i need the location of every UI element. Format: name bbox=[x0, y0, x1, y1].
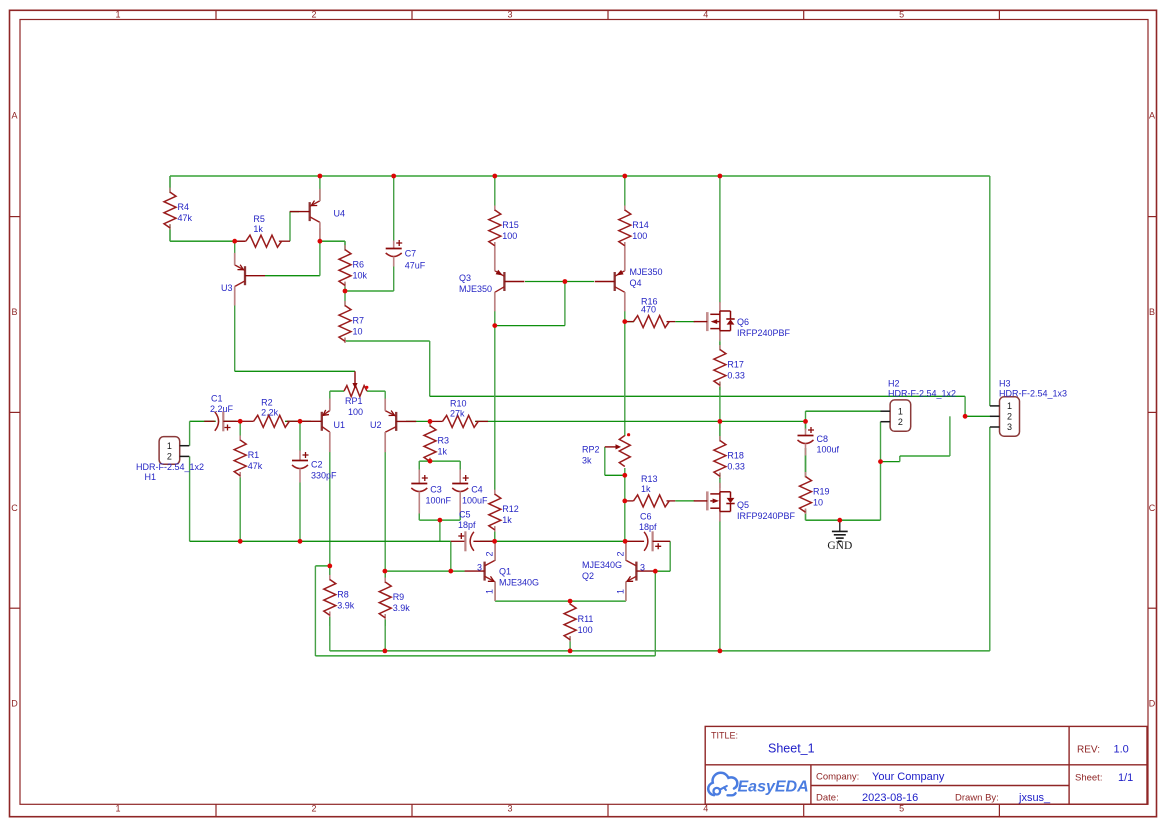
svg-text:Sheet_1: Sheet_1 bbox=[768, 742, 815, 756]
svg-text:R2: R2 bbox=[261, 397, 273, 407]
svg-text:2: 2 bbox=[485, 551, 495, 556]
svg-text:Date:: Date: bbox=[816, 793, 839, 804]
svg-text:C3: C3 bbox=[430, 485, 442, 495]
junction node U4-collector/R6/U3-base bbox=[318, 239, 323, 244]
wire Q5 drain down bbox=[719, 521, 721, 651]
wire R4 bottom to node A bbox=[170, 240, 235, 242]
svg-text:1: 1 bbox=[616, 589, 626, 594]
svg-text:GND: GND bbox=[827, 540, 852, 552]
wire R11 branch bbox=[569, 601, 571, 651]
wire output row R10 to C8 bbox=[475, 420, 806, 422]
wire R3 branch bbox=[429, 421, 431, 461]
svg-text:R4: R4 bbox=[178, 202, 190, 212]
wire U4 collector down to U3 base bbox=[319, 241, 321, 276]
svg-text:C5: C5 bbox=[459, 510, 471, 520]
svg-text:1: 1 bbox=[115, 10, 120, 20]
svg-text:5: 5 bbox=[899, 10, 904, 20]
wire feedback long horizontal bbox=[430, 395, 965, 397]
wire R4 branch bbox=[169, 176, 171, 241]
wire U3 collector down bbox=[234, 287, 236, 372]
resistor R7 bbox=[338, 291, 365, 343]
transistor U3 bbox=[235, 253, 265, 306]
svg-text:R13: R13 bbox=[641, 474, 658, 484]
junction node Q2-base/C6 bbox=[653, 569, 658, 574]
wire bus to Q1 base line bbox=[450, 541, 452, 571]
EasyEDA logo bbox=[708, 773, 808, 796]
svg-text:C2: C2 bbox=[311, 460, 323, 470]
wire Q1 base row bbox=[385, 570, 465, 572]
wire Q1 emitter row bbox=[495, 600, 570, 602]
svg-text:C1: C1 bbox=[211, 394, 223, 404]
svg-text:MJE350: MJE350 bbox=[630, 267, 663, 277]
svg-text:3: 3 bbox=[1007, 422, 1012, 432]
junction node rail/U4-emitter bbox=[318, 174, 323, 179]
svg-text:2.2k: 2.2k bbox=[261, 407, 279, 417]
wire node A to R5 bbox=[235, 240, 245, 242]
svg-text:10: 10 bbox=[353, 327, 363, 337]
junction node R2/C2/U1-base bbox=[298, 419, 303, 424]
resistor R13 bbox=[625, 474, 675, 507]
svg-text:Q1: Q1 bbox=[499, 567, 511, 577]
wire to Q3 collector bbox=[495, 325, 565, 327]
svg-text:Q5: Q5 bbox=[737, 500, 749, 510]
wire U4 emitter top bbox=[319, 176, 321, 201]
svg-text:1/1: 1/1 bbox=[1118, 772, 1133, 784]
svg-text:HDR-F-2.54_1x2: HDR-F-2.54_1x2 bbox=[136, 462, 204, 472]
svg-text:Q2: Q2 bbox=[582, 571, 594, 581]
resistor R3 bbox=[423, 421, 450, 463]
ground GND symbol bbox=[827, 520, 852, 552]
svg-text:R3: R3 bbox=[438, 436, 450, 446]
svg-text:B: B bbox=[1149, 307, 1155, 317]
junction node R6/R7/C7 bbox=[343, 289, 348, 294]
svg-text:Your Company: Your Company bbox=[872, 771, 945, 783]
wire Q2 emitter down bbox=[625, 582, 627, 601]
svg-text:3: 3 bbox=[507, 803, 512, 813]
svg-text:R14: R14 bbox=[632, 220, 649, 230]
junction node C1/R1/R2 bbox=[238, 419, 243, 424]
wire lower link vertical bbox=[314, 566, 316, 656]
svg-text:100uf: 100uf bbox=[817, 445, 840, 455]
svg-text:C8: C8 bbox=[817, 434, 829, 444]
svg-text:C7: C7 bbox=[405, 249, 417, 259]
wire U2 collector down bbox=[384, 432, 386, 571]
svg-text:Q6: Q6 bbox=[737, 317, 749, 327]
svg-text:47uF: 47uF bbox=[405, 261, 426, 271]
resistor R10 bbox=[430, 398, 488, 427]
svg-text:HDR-F-2.54_1x2: HDR-F-2.54_1x2 bbox=[888, 389, 956, 399]
wire output node to R18 bbox=[719, 421, 721, 441]
wire Q2 emitter row bbox=[570, 600, 626, 602]
wire bus node to Q2 collector node bbox=[495, 540, 625, 542]
svg-text:10: 10 bbox=[813, 498, 823, 508]
svg-text:U1: U1 bbox=[334, 420, 346, 430]
wire C3 C4 top bracket bbox=[419, 460, 460, 462]
wire RP1 left bbox=[330, 390, 344, 392]
svg-text:27k: 27k bbox=[450, 408, 465, 418]
svg-text:B: B bbox=[11, 307, 17, 317]
svg-text:18pf: 18pf bbox=[458, 520, 476, 530]
svg-text:100: 100 bbox=[502, 231, 517, 241]
resistor R17 bbox=[712, 342, 745, 390]
wire R19 bottom to ground row bbox=[805, 510, 807, 520]
junction node H2-pin2/return bbox=[878, 459, 883, 464]
wire bus C5 to node bbox=[480, 540, 495, 542]
svg-text:4: 4 bbox=[703, 10, 708, 20]
transistor Q1 MJE340G bbox=[465, 543, 496, 601]
svg-text:100nF: 100nF bbox=[426, 496, 452, 506]
wire R6 top lead bbox=[344, 241, 346, 252]
wire U1 collector down bbox=[329, 432, 331, 566]
wire RP1 right bbox=[367, 390, 385, 392]
capacitor C1 bbox=[204, 394, 240, 432]
svg-text:R18: R18 bbox=[727, 451, 744, 461]
svg-text:2023-08-16: 2023-08-16 bbox=[862, 792, 918, 804]
connector H3 HDR-F-2.54_1x3 bbox=[990, 379, 1067, 437]
svg-text:Q4: Q4 bbox=[630, 278, 642, 288]
svg-text:1k: 1k bbox=[502, 515, 512, 525]
svg-text:47k: 47k bbox=[178, 213, 193, 223]
wire C8 R19 branch bbox=[805, 421, 807, 430]
junction node rail/R15 bbox=[492, 174, 497, 179]
resistor R15 bbox=[487, 176, 519, 248]
svg-text:Q3: Q3 bbox=[459, 273, 471, 283]
svg-text:2: 2 bbox=[311, 803, 316, 813]
wire lower link to Q2 base bbox=[654, 571, 656, 656]
junction node Q3/Q4 base bbox=[563, 279, 568, 284]
wire lower link horizontal bbox=[315, 655, 655, 657]
junction node C5/Q1-base bbox=[448, 569, 453, 574]
transistor U4 bbox=[290, 189, 320, 240]
junction node Q5/bottom rail bbox=[718, 649, 723, 654]
wire RP2 wiper loop bbox=[604, 447, 606, 475]
svg-text:1: 1 bbox=[115, 803, 120, 813]
junction node R17/R18/output bbox=[718, 419, 723, 424]
junction node ground bbox=[837, 518, 842, 523]
capacitor C3 bbox=[411, 461, 452, 520]
resistor R5 bbox=[235, 214, 290, 247]
junction node U2-collector/R9/Q1-base bbox=[383, 569, 388, 574]
svg-text:jxsus_: jxsus_ bbox=[1018, 792, 1051, 804]
capacitor C7 bbox=[385, 176, 426, 291]
wire R16 row bbox=[625, 321, 634, 323]
svg-text:1: 1 bbox=[898, 406, 903, 416]
resistor R12 bbox=[487, 480, 519, 541]
wire Q1 collector up bbox=[494, 541, 496, 561]
wire U2 base to R10 node bbox=[406, 420, 430, 422]
wire R17 to output node bbox=[719, 380, 721, 421]
svg-text:RP1: RP1 bbox=[345, 396, 363, 406]
wire U1 collector to lower link bbox=[315, 565, 329, 567]
svg-text:HDR-F-2.54_1x3: HDR-F-2.54_1x3 bbox=[999, 389, 1067, 399]
svg-text:IRFP240PBF: IRFP240PBF bbox=[737, 328, 791, 338]
wire right drop to H3 pin1 bbox=[989, 176, 991, 406]
transistor U1 bbox=[302, 399, 330, 453]
junction node R1/bus bbox=[238, 539, 243, 544]
wire +V top rail bbox=[170, 175, 990, 177]
svg-text:Sheet:: Sheet: bbox=[1075, 773, 1102, 784]
wire Q6 source to R17 bbox=[719, 340, 721, 351]
svg-text:RP2: RP2 bbox=[582, 445, 600, 455]
wire R2 to U1 base bbox=[285, 420, 302, 422]
svg-text:D: D bbox=[11, 699, 18, 709]
svg-text:R11: R11 bbox=[578, 614, 594, 624]
wire U1 emitter drop bbox=[329, 391, 331, 410]
svg-text:U3: U3 bbox=[221, 283, 233, 293]
svg-text:1k: 1k bbox=[253, 224, 263, 234]
wire U3 base link bbox=[265, 275, 320, 277]
junction node U2-base/R10/R3 bbox=[428, 419, 433, 424]
svg-text:0.33: 0.33 bbox=[727, 462, 745, 472]
svg-text:3.9k: 3.9k bbox=[337, 600, 355, 610]
svg-text:1: 1 bbox=[167, 441, 172, 451]
potentiometer RP1 bbox=[344, 371, 368, 417]
junction node rail/Q6 bbox=[718, 174, 723, 179]
wire Q2 collector up bbox=[625, 541, 627, 561]
wire R13 to Q5 gate bbox=[675, 500, 694, 502]
svg-text:2.2uF: 2.2uF bbox=[210, 404, 234, 414]
wire to H3 pin2 bbox=[965, 415, 990, 417]
junction node U1-collector/R8 bbox=[327, 564, 332, 569]
wire Q1 emitter down bbox=[494, 582, 496, 601]
svg-text:IRFP9240PBF: IRFP9240PBF bbox=[737, 511, 796, 521]
resistor R4 bbox=[163, 176, 193, 241]
wire U2 emitter drop bbox=[384, 391, 386, 410]
svg-text:R8: R8 bbox=[337, 589, 349, 599]
svg-text:3: 3 bbox=[640, 563, 645, 573]
title block bbox=[705, 726, 1147, 804]
svg-text:2: 2 bbox=[167, 452, 172, 462]
svg-text:1.0: 1.0 bbox=[1114, 744, 1129, 756]
svg-text:C6: C6 bbox=[640, 512, 652, 522]
svg-text:H3: H3 bbox=[999, 379, 1011, 389]
svg-text:EasyEDA: EasyEDA bbox=[738, 779, 809, 796]
svg-text:R6: R6 bbox=[353, 260, 365, 270]
wire U1 base green bbox=[300, 420, 311, 422]
junction node Q1/Q2 emitters/R11 bbox=[568, 599, 573, 604]
wire C34 node down to bus bbox=[439, 520, 441, 541]
svg-text:R12: R12 bbox=[502, 504, 519, 514]
junction node R3/C3/C4 bbox=[428, 459, 433, 464]
wire R8 bottom rail bbox=[330, 650, 990, 652]
wire Q3 base down bbox=[564, 282, 566, 326]
wire U3 collector to RP1 wiper bbox=[235, 370, 355, 372]
wire U4 collector node to R6 bbox=[320, 240, 345, 242]
svg-text:100uF: 100uF bbox=[462, 496, 488, 506]
svg-text:1k: 1k bbox=[641, 484, 651, 494]
junction node output/C8/H2 bbox=[803, 419, 808, 424]
svg-text:C: C bbox=[11, 503, 18, 513]
wire feedback vertical bbox=[429, 341, 431, 396]
wire feedback drop bbox=[964, 396, 966, 416]
wire R8 branch bbox=[329, 566, 331, 651]
wire H2 pin2 drop bbox=[880, 422, 882, 521]
capacitor C4 bbox=[452, 461, 488, 520]
junction node R4/R5/U3-emitter bbox=[232, 239, 237, 244]
wire U3 emitter top bbox=[234, 241, 236, 254]
wire R6 bottom to C7 bbox=[345, 290, 394, 292]
wire output to H2 pin1 bbox=[805, 411, 807, 421]
svg-text:D: D bbox=[1149, 699, 1156, 709]
junction node R9/bottom rail bbox=[383, 649, 388, 654]
connector H2 HDR-F-2.54_1x2 bbox=[881, 379, 957, 432]
junction node C3/C4 bottom bbox=[438, 518, 443, 523]
junction node Q4-collector/R16 bbox=[622, 319, 627, 324]
svg-text:3: 3 bbox=[477, 563, 482, 573]
svg-text:A: A bbox=[11, 111, 17, 121]
resistor R16 bbox=[625, 297, 675, 328]
wire input row bbox=[190, 420, 236, 422]
wire Q6 drain from rail bbox=[719, 176, 721, 303]
svg-text:3k: 3k bbox=[582, 456, 592, 466]
mosfet Q5 IRFP9240PBF bbox=[694, 483, 735, 522]
svg-text:MJE340G: MJE340G bbox=[582, 560, 622, 570]
junction node RP2/R13 bbox=[622, 499, 627, 504]
svg-text:3.9k: 3.9k bbox=[393, 603, 411, 613]
junction node C2/bus bbox=[298, 539, 303, 544]
junction node RP2 wiper bbox=[622, 473, 627, 478]
svg-text:U2: U2 bbox=[370, 420, 382, 430]
svg-text:R9: R9 bbox=[393, 592, 405, 602]
resistor R11 bbox=[563, 600, 594, 642]
svg-text:REV:: REV: bbox=[1077, 745, 1100, 756]
svg-text:330pF: 330pF bbox=[311, 471, 337, 481]
junction node Q3-collector bbox=[492, 323, 497, 328]
wire speaker return jog bbox=[881, 461, 900, 463]
svg-text:C: C bbox=[1149, 503, 1156, 513]
junction node C6/RP2/Q2-collector bbox=[623, 539, 628, 544]
junction node C5/R12/Q1-collector bbox=[492, 539, 497, 544]
svg-text:10k: 10k bbox=[353, 271, 368, 281]
svg-text:47k: 47k bbox=[248, 461, 263, 471]
svg-text:R7: R7 bbox=[353, 316, 365, 326]
capacitor C5 bbox=[451, 510, 495, 552]
svg-text:R17: R17 bbox=[727, 360, 744, 370]
resistor R1 bbox=[233, 421, 263, 541]
wire U4 collector gap bbox=[319, 228, 321, 241]
wire ground row bbox=[806, 519, 881, 521]
wire H1 pin1 up bbox=[189, 421, 191, 445]
svg-text:2: 2 bbox=[1007, 412, 1012, 422]
svg-text:1: 1 bbox=[1007, 401, 1012, 411]
resistor R8 bbox=[322, 566, 355, 626]
wire C6 right loop bbox=[669, 541, 671, 571]
wire C3 C4 bottom bracket bbox=[418, 496, 420, 520]
wire R7 bottom to feedback bbox=[345, 340, 430, 342]
svg-text:100: 100 bbox=[348, 407, 363, 417]
svg-text:Company:: Company: bbox=[816, 772, 859, 783]
svg-text:100: 100 bbox=[578, 625, 593, 635]
svg-text:A: A bbox=[1149, 111, 1155, 121]
svg-text:R1: R1 bbox=[248, 450, 260, 460]
svg-text:100: 100 bbox=[632, 231, 647, 241]
svg-text:H2: H2 bbox=[888, 379, 900, 389]
transistor Q2 MJE340G bbox=[626, 543, 657, 601]
svg-text:R19: R19 bbox=[813, 487, 830, 497]
svg-text:2: 2 bbox=[616, 551, 626, 556]
mosfet Q6 IRFP240PBF bbox=[694, 302, 735, 341]
svg-text:TITLE:: TITLE: bbox=[711, 731, 738, 741]
connector H1 HDR-F-2.54_1x2 bbox=[136, 437, 204, 482]
svg-text:MJE340G: MJE340G bbox=[499, 578, 539, 588]
resistor R14 bbox=[617, 176, 649, 248]
svg-text:0.33: 0.33 bbox=[727, 371, 745, 381]
svg-text:2: 2 bbox=[898, 417, 903, 427]
wire Q3 Q4 base link bbox=[525, 281, 594, 283]
svg-text:Drawn By:: Drawn By: bbox=[955, 793, 999, 804]
svg-text:1: 1 bbox=[485, 589, 495, 594]
wire R18 to Q5 bbox=[719, 473, 721, 488]
svg-text:3: 3 bbox=[507, 10, 512, 20]
capacitor C8 bbox=[797, 421, 840, 472]
wire RP2 to R13 node bbox=[624, 468, 626, 541]
svg-text:H1: H1 bbox=[145, 472, 157, 482]
svg-text:R15: R15 bbox=[502, 220, 519, 230]
resistor R9 bbox=[378, 571, 411, 626]
svg-text:18pf: 18pf bbox=[639, 522, 657, 532]
capacitor C2 bbox=[292, 421, 338, 541]
svg-text:C4: C4 bbox=[471, 485, 483, 495]
resistor R19 bbox=[798, 448, 830, 520]
wire rail up to H3 pin3 bbox=[989, 427, 991, 651]
wire Q4 collector down to RP2 bbox=[624, 292, 626, 437]
transistor U2 bbox=[385, 399, 416, 453]
capacitor C6 bbox=[625, 512, 670, 552]
potentiometer RP2 bbox=[582, 433, 632, 466]
svg-text:MJE350: MJE350 bbox=[459, 284, 492, 294]
wire Q3 collector down to R12 bbox=[494, 292, 496, 541]
junction node R11/bottom rail bbox=[568, 649, 573, 654]
resistor R2 bbox=[240, 397, 300, 427]
transistor Q3 MJE350 bbox=[495, 247, 525, 312]
svg-text:1k: 1k bbox=[438, 447, 448, 457]
resistor R6 bbox=[338, 241, 368, 291]
svg-text:470: 470 bbox=[641, 305, 656, 315]
wire R9 branch bbox=[384, 571, 386, 651]
svg-text:U4: U4 bbox=[334, 209, 346, 219]
svg-text:R5: R5 bbox=[253, 214, 265, 224]
svg-text:R10: R10 bbox=[450, 398, 467, 408]
wire ground bus bbox=[190, 540, 451, 542]
svg-text:2: 2 bbox=[311, 10, 316, 20]
wire H1 pin2 down bbox=[189, 456, 191, 541]
transistor Q4 MJE350 bbox=[595, 247, 625, 312]
wire R5 right vertical to U4 base bbox=[289, 212, 291, 242]
junction node return/H3-pin2 bbox=[963, 414, 968, 419]
junction node rail/R14 bbox=[622, 174, 627, 179]
resistor R18 bbox=[712, 424, 745, 479]
junction node rail/C7 bbox=[391, 174, 396, 179]
